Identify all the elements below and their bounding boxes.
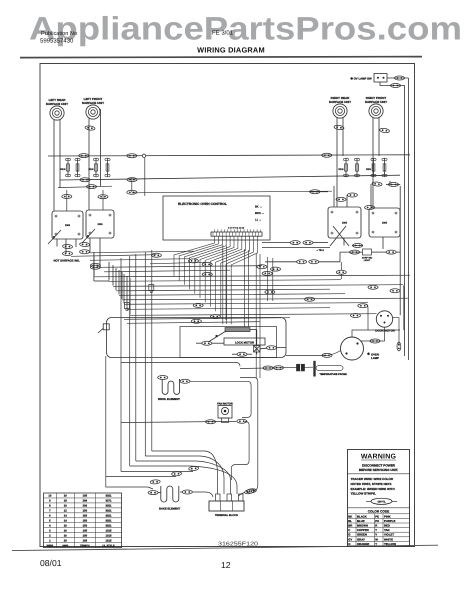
svg-text:G: G <box>348 533 350 537</box>
svg-text:8: 8 <box>49 505 51 508</box>
page logo text AppliancePartsPros.com <box>29 11 462 47</box>
svg-text:TERMINAL BLOCK: TERMINAL BLOCK <box>215 514 238 517</box>
TB label <box>316 249 324 252</box>
svg-text:W: W <box>375 537 378 541</box>
svg-text:Publication No: Publication No <box>41 30 77 37</box>
oven lamp switch OV LAMP SW <box>351 74 388 83</box>
connector bus k2 <box>336 270 346 274</box>
svg-text:R: R <box>375 524 377 528</box>
switch SW3 right-rear surface <box>328 207 361 238</box>
wire mid jumper <box>58 186 112 187</box>
connector pair above SW4 <box>365 206 375 210</box>
EOC pin strip connector <box>211 227 262 237</box>
wire gauge table <box>44 493 122 548</box>
wire lamp left <box>286 351 341 356</box>
svg-text:10: 10 <box>64 505 67 508</box>
svg-text:3321: 3321 <box>106 510 112 513</box>
svg-text:150: 150 <box>83 520 88 523</box>
connector hot surface b <box>79 242 89 247</box>
svg-text:18: 18 <box>64 500 67 503</box>
svg-text:BEFORE SERVICING UNIT.: BEFORE SERVICING UNIT. <box>359 468 398 472</box>
svg-text:FE 3/01: FE 3/01 <box>212 30 234 37</box>
svg-text:WIRING DIAGRAM: WIRING DIAGRAM <box>197 46 265 55</box>
connector bus k3 <box>368 285 378 289</box>
svg-text:10: 10 <box>48 495 51 498</box>
warning and color code box <box>348 450 410 547</box>
svg-text:BROIL ELEMENT: BROIL ELEMENT <box>158 398 180 401</box>
svg-text:✱: ✱ <box>367 352 370 356</box>
diagram border frame <box>40 64 415 547</box>
svg-text:FAN MOTOR: FAN MOTOR <box>217 402 233 405</box>
wire rail lock bottom <box>121 363 240 367</box>
resistor R-LF pair <box>89 158 111 177</box>
svg-text:1015: 1015 <box>106 529 112 532</box>
svg-text:1 3 5 7 9 11 13 15: 1 3 5 7 9 11 13 15 <box>228 227 245 230</box>
svg-text:TEMP°C: TEMP°C <box>80 544 90 547</box>
connector lock c <box>267 346 277 350</box>
svg-text:LAMP: LAMP <box>371 356 379 360</box>
svg-text:5: 5 <box>49 520 51 523</box>
oven lamp <box>341 337 380 360</box>
connector bus m <box>210 315 220 319</box>
switch SW1 left-rear surface <box>52 211 83 239</box>
svg-text:TEMPERATURE PROBE: TEMPERATURE PROBE <box>320 373 348 376</box>
svg-text:3321: 3321 <box>106 495 112 498</box>
svg-text:12: 12 <box>64 510 67 513</box>
thermal fuse crossed box <box>254 346 261 353</box>
svg-text:SURFACE UNIT: SURFACE UNIT <box>365 100 387 104</box>
svg-text:TAN: TAN <box>384 528 390 532</box>
svg-text:2006: 2006 <box>65 224 71 227</box>
connector rail2 a <box>80 178 90 182</box>
svg-text:HOT SURFACE IND.: HOT SURFACE IND. <box>54 259 81 263</box>
switch SW2 left-front surface <box>86 210 114 238</box>
wire lamp switch lower <box>380 82 405 86</box>
plug symbol upper <box>149 285 154 293</box>
electronic oven control box <box>163 196 270 240</box>
connector bus o <box>351 314 361 318</box>
broil element <box>158 379 180 401</box>
svg-text:COPPER: COPPER <box>357 528 369 532</box>
svg-text:9: 9 <box>49 500 51 503</box>
connector door motor right <box>397 342 401 351</box>
svg-text:BK: BK <box>348 514 352 518</box>
wire lock internals <box>196 330 286 355</box>
drawing number 316255F120 <box>218 541 258 547</box>
svg-text:150: 150 <box>83 524 88 527</box>
svg-text:3321: 3321 <box>106 515 112 518</box>
connector above SW2 <box>98 195 108 199</box>
connector below LF coil <box>85 125 95 130</box>
EOC side labels <box>255 206 264 222</box>
svg-text:LIGHT: LIGHT <box>364 259 371 262</box>
connector below SW3 a <box>353 244 363 248</box>
connector bus a <box>151 253 161 257</box>
wire coil RF leads <box>373 117 379 208</box>
svg-text:SURF IND: SURF IND <box>362 257 373 260</box>
svg-text:RES: RES <box>366 168 371 171</box>
svg-text:SURFACE UNIT: SURFACE UNIT <box>329 100 351 104</box>
wire riser to stud <box>239 493 245 497</box>
EOC label <box>178 202 227 206</box>
connector bus n <box>191 319 201 323</box>
door lock assembly enclosure <box>107 318 287 358</box>
svg-text:3: 3 <box>49 529 51 532</box>
svg-text:200: 200 <box>83 500 88 503</box>
wire EOC right b <box>262 248 340 262</box>
connector hot surface a <box>62 244 72 249</box>
connector bus e <box>63 252 73 256</box>
wire below right switches <box>340 237 400 279</box>
connector bus d2 <box>271 267 281 271</box>
wire coil LF leads <box>89 110 101 211</box>
wire fan rail <box>121 421 249 480</box>
svg-text:200: 200 <box>83 505 88 508</box>
connector plug on enclosure left <box>98 324 109 333</box>
switch SW4 right-front surface <box>369 208 400 237</box>
svg-text:BL: BL <box>348 519 352 523</box>
connector lamp switch right <box>395 76 405 80</box>
svg-text:COLOR CODE: COLOR CODE <box>368 509 390 513</box>
svg-text:316255F120: 316255F120 <box>218 541 258 547</box>
svg-text:NOTED FIRST, STRIPE NEXT.: NOTED FIRST, STRIPE NEXT. <box>351 482 393 486</box>
probe jack dark block <box>297 364 305 371</box>
svg-text:V: V <box>375 533 377 537</box>
wire sw1 down leads <box>57 238 100 265</box>
connector right area b <box>389 183 399 187</box>
wire center vertical bundle <box>121 250 152 472</box>
connector broil left <box>158 376 168 380</box>
connector fan left <box>206 420 216 424</box>
wire right bus 2 <box>404 86 406 357</box>
connector rail1 a <box>79 154 89 158</box>
connector EOC right d <box>309 260 319 264</box>
switch arm SW3 crossing <box>330 226 349 246</box>
svg-text:LOCK MOTOR: LOCK MOTOR <box>235 340 254 344</box>
svg-text:BRN →: BRN → <box>255 212 264 215</box>
svg-text:UL STYLE: UL STYLE <box>102 544 114 547</box>
wire bake feed <box>106 356 148 487</box>
probe flange bar <box>313 361 315 377</box>
svg-text:3321: 3321 <box>106 505 112 508</box>
connector right area a <box>372 182 382 187</box>
svg-text:AWG: AWG <box>62 544 68 547</box>
connector bus k5 <box>358 304 368 308</box>
svg-text:3321: 3321 <box>106 520 112 523</box>
surface unit coil RIGHT FRONT <box>365 96 387 118</box>
svg-text:16: 16 <box>64 495 67 498</box>
wire bake connections <box>148 487 213 497</box>
svg-text:20: 20 <box>64 539 67 542</box>
wire right bus 1 <box>407 78 409 360</box>
svg-text:3321: 3321 <box>106 524 112 527</box>
bottom rule <box>12 545 438 550</box>
connector stair b <box>171 471 181 476</box>
switch arm SW1 <box>48 230 61 244</box>
wire right bus 3 <box>399 186 401 315</box>
connector bus f <box>80 250 90 254</box>
svg-text:RED: RED <box>384 524 390 528</box>
svg-text:105: 105 <box>83 529 88 532</box>
connector EOC-left riser <box>127 190 137 194</box>
svg-text:7: 7 <box>49 510 51 513</box>
footer date 08/01 <box>40 558 62 568</box>
svg-text:PURPLE: PURPLE <box>384 519 395 523</box>
wire rail end drops <box>364 286 404 331</box>
connector bus i <box>262 271 272 275</box>
connector bake right <box>182 490 192 494</box>
plug symbol mid <box>125 303 130 311</box>
wire door motor lower <box>361 327 385 341</box>
switch arm SW2 <box>82 229 95 243</box>
svg-text:12: 12 <box>221 560 231 570</box>
connector EOC right TB a <box>290 241 300 245</box>
connector bus d <box>257 265 267 269</box>
connector probe b <box>274 366 284 370</box>
svg-text:2006: 2006 <box>97 223 103 226</box>
publication number text <box>40 30 77 45</box>
svg-text:16: 16 <box>64 534 67 537</box>
svg-text:✺ OV LAMP SW: ✺ OV LAMP SW <box>351 76 372 80</box>
connector EOC right c <box>297 260 307 264</box>
connector fan right <box>237 419 247 423</box>
node junction on top rail <box>142 154 145 157</box>
svg-text:BROWN: BROWN <box>357 524 368 528</box>
connector bake feed a <box>150 480 160 485</box>
connector lamp left <box>322 353 332 357</box>
wire rail L1 top <box>48 155 410 156</box>
connector below SW3 b <box>350 250 360 254</box>
footer page number 12 <box>221 560 231 570</box>
svg-text:SURFACE UNIT: SURFACE UNIT <box>82 101 104 105</box>
svg-text:105: 105 <box>83 539 88 542</box>
svg-text:16: 16 <box>64 529 67 532</box>
svg-text:1: 1 <box>49 539 51 542</box>
svg-text:RES: RES <box>339 168 344 171</box>
connector stair a <box>189 466 199 471</box>
wire node drop to EOC <box>144 158 146 196</box>
model number text FE 3/01 <box>212 30 234 37</box>
surface unit coil RIGHT REAR <box>329 96 351 118</box>
svg-text:14: 14 <box>64 515 67 518</box>
svg-text:08/01: 08/01 <box>40 558 62 568</box>
svg-text:YELLOW STRIPE.: YELLOW STRIPE. <box>351 492 377 496</box>
connector left riser <box>90 265 100 269</box>
wire coil RR leads <box>337 117 343 207</box>
connector below SW4 <box>386 250 396 254</box>
svg-text:10: 10 <box>64 524 67 527</box>
hot surface indicator label <box>54 259 81 263</box>
connector bus b <box>189 259 199 263</box>
wire rail N second <box>60 175 400 180</box>
connector bus g <box>90 263 100 267</box>
svg-text:5995357430: 5995357430 <box>40 38 74 45</box>
svg-text:GN-YL: GN-YL <box>377 500 385 503</box>
lock inner compartment <box>180 327 277 358</box>
fan motor <box>217 402 233 422</box>
connector bus l <box>193 303 203 307</box>
resistor R-RR pair <box>339 158 360 177</box>
svg-text:WIRE: WIRE <box>47 544 54 547</box>
svg-text:6: 6 <box>49 515 51 518</box>
svg-text:2005: 2005 <box>382 222 388 225</box>
svg-text:O: O <box>348 542 351 546</box>
connector bus c <box>202 262 212 266</box>
wire EOC drop verticals <box>223 245 273 378</box>
wire left risers <box>94 252 109 281</box>
bake element <box>159 486 181 511</box>
svg-text:WHITE: WHITE <box>384 537 393 541</box>
wire lamp switch to right bus <box>387 77 408 79</box>
svg-text:ELECTRONIC OVEN CONTROL: ELECTRONIC OVEN CONTROL <box>178 202 227 206</box>
svg-text:BLUE: BLUE <box>357 519 365 523</box>
header rule <box>20 57 422 58</box>
lock switch arm <box>209 331 226 342</box>
wire rail to right switches <box>132 191 332 193</box>
svg-text:GY: GY <box>348 537 352 541</box>
connector lamp switch lower <box>391 84 401 88</box>
connector broil right <box>180 379 190 383</box>
connector bus k4 <box>390 289 400 293</box>
svg-text:PINK: PINK <box>384 514 391 518</box>
svg-text:BR: BR <box>348 524 352 528</box>
svg-text:C: C <box>348 528 350 532</box>
wire rail left elbows <box>94 256 130 315</box>
connector bus j <box>265 290 275 294</box>
svg-text:→TB A: →TB A <box>316 249 324 252</box>
svg-text:1015: 1015 <box>106 534 112 537</box>
svg-text:WARNING: WARNING <box>361 454 397 461</box>
svg-text:GREEN: GREEN <box>357 533 367 537</box>
lock cam shaded bar <box>225 328 250 332</box>
connector door motor lower <box>370 339 380 343</box>
wire lamp top <box>352 330 400 337</box>
wire coil LR leads <box>54 120 60 212</box>
resistor R-LR pair <box>61 158 81 177</box>
svg-text:DOOR MOTOR: DOOR MOTOR <box>375 329 395 333</box>
wire sw3 bottom drop <box>340 262 342 270</box>
svg-text:1015: 1015 <box>106 539 112 542</box>
svg-text:T: T <box>375 528 377 532</box>
wire EOC right a <box>262 242 328 244</box>
svg-text:Y: Y <box>375 542 377 546</box>
surface unit coil LEFT REAR <box>46 98 68 120</box>
connector riser bottom <box>244 489 255 495</box>
svg-text:BK →: BK → <box>255 206 262 209</box>
wire harness fan-out from EOC <box>174 236 257 324</box>
connector right area c <box>310 190 320 194</box>
wire broil-to-riser <box>190 381 251 417</box>
svg-text:PK: PK <box>375 514 379 518</box>
svg-text:ORANGE: ORANGE <box>357 542 369 546</box>
svg-text:BAKE ELEMENT: BAKE ELEMENT <box>159 508 181 511</box>
connector mid jumper <box>87 185 97 189</box>
wire horizontal bus bundle <box>71 251 410 323</box>
connector below RF coil <box>379 128 389 133</box>
connector rail1 c <box>322 153 332 157</box>
svg-text:YELLOW: YELLOW <box>384 542 396 546</box>
wire broil right <box>179 379 181 381</box>
svg-text:2005: 2005 <box>342 222 348 225</box>
connector bus h <box>202 272 212 276</box>
connector below RR coil <box>334 125 344 130</box>
connector rail1 b <box>127 154 137 158</box>
svg-text:105: 105 <box>83 534 88 537</box>
svg-text:VIOLET: VIOLET <box>384 533 394 537</box>
connector bus k <box>305 297 315 301</box>
svg-text:PU: PU <box>375 519 379 523</box>
svg-text:3271: 3271 <box>106 500 112 503</box>
svg-text:SURFACE UNIT: SURFACE UNIT <box>46 102 68 106</box>
svg-text:150: 150 <box>83 515 88 518</box>
svg-text:RES: RES <box>89 168 94 171</box>
connector rail2 b <box>127 178 137 182</box>
wire SW1 top lead <box>67 190 103 211</box>
wire center bundle elbows <box>106 451 237 494</box>
svg-text:105: 105 <box>83 495 88 498</box>
wire sw3 up leads <box>309 186 347 207</box>
wire sw4 up leads <box>371 181 400 208</box>
connector probe a <box>263 366 273 370</box>
svg-text:RES: RES <box>61 168 66 171</box>
svg-text:GRAY: GRAY <box>357 537 365 541</box>
door motor M1 <box>375 311 395 333</box>
wire probe rail <box>240 367 313 368</box>
connector EOC right TB b <box>303 241 313 245</box>
connector lock a <box>202 341 212 345</box>
connector bake left <box>148 491 158 495</box>
connector above SW1 <box>62 195 72 199</box>
connector right area e <box>347 193 357 197</box>
svg-text:EXAMPLE: GREEN WIRE WITH: EXAMPLE: GREEN WIRE WITH <box>351 487 395 491</box>
svg-text:TRACER WIRE: WIRE COLOR: TRACER WIRE: WIRE COLOR <box>351 477 394 481</box>
wire door motor right <box>393 318 399 346</box>
surface indicator block <box>362 249 373 262</box>
wire long right riser <box>240 378 258 491</box>
svg-text:150: 150 <box>83 510 88 513</box>
resistor R-RF pair <box>366 158 387 177</box>
surface unit coil LEFT FRONT <box>82 97 104 119</box>
probe body <box>316 366 343 371</box>
svg-text:AppliancePartsPros.com: AppliancePartsPros.com <box>29 11 462 47</box>
probe label <box>320 373 348 376</box>
title WIRING DIAGRAM <box>197 46 265 55</box>
terminal block <box>209 494 244 517</box>
svg-text:14: 14 <box>64 520 67 523</box>
svg-text:2: 2 <box>49 534 51 537</box>
lock motor box <box>224 338 265 345</box>
connector terminal right <box>246 488 256 493</box>
svg-text:BLACK: BLACK <box>357 514 367 518</box>
connector right area d <box>336 197 346 201</box>
wire EOC-left riser <box>131 178 133 192</box>
connector lock b <box>237 352 247 356</box>
svg-text:4: 4 <box>49 524 51 527</box>
svg-text:L1 →: L1 → <box>255 219 262 222</box>
